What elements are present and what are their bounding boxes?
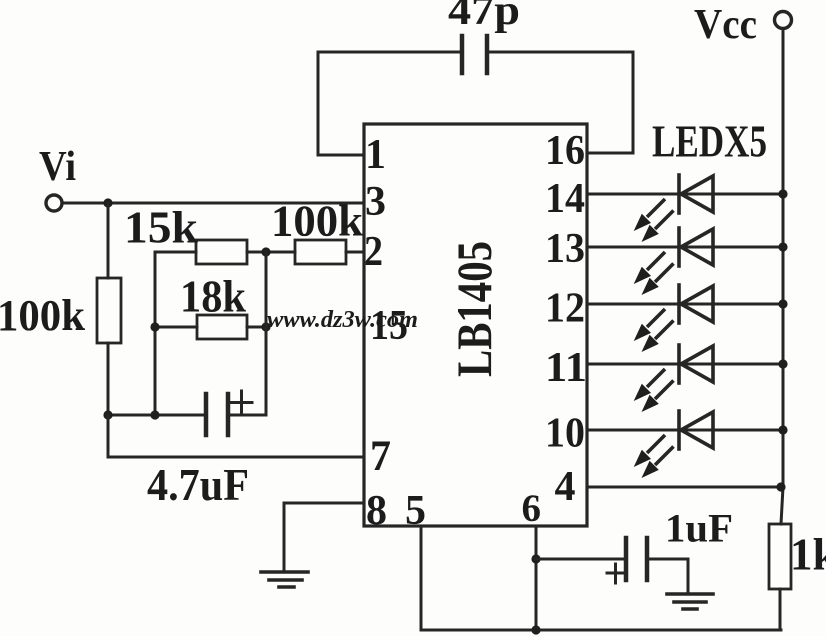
wire node down to pin7 — [108, 415, 364, 457]
svg-text:15: 15 — [370, 303, 408, 349]
svg-text:Vi: Vi — [39, 144, 76, 190]
LED D5 pin10 row — [587, 411, 788, 478]
terminal Vi — [46, 195, 62, 211]
svg-text:1k: 1k — [790, 530, 826, 580]
svg-text:47p: 47p — [448, 0, 520, 34]
wire Vi to pin3 — [63, 202, 364, 205]
watermark www.dz3w.com — [267, 307, 418, 333]
wire node row to cap left plate — [108, 414, 206, 417]
LED D1 symbol — [679, 175, 713, 213]
node rail pin11 — [778, 359, 787, 368]
wire 47p loop top right — [489, 51, 633, 54]
svg-text:13: 13 — [545, 226, 585, 272]
svg-text:12: 12 — [545, 286, 585, 332]
node pin6 rail junction — [531, 625, 540, 634]
label 4.7uF — [147, 460, 249, 510]
wire pin6 node to 1uF — [536, 558, 626, 561]
wire 1k bottom to rail — [779, 589, 782, 630]
svg-text:8: 8 — [366, 488, 387, 534]
label 18k — [180, 272, 246, 322]
svg-text:15k: 15k — [124, 203, 198, 253]
svg-text:6: 6 — [522, 487, 542, 530]
svg-text:LB1405: LB1405 — [446, 241, 502, 377]
resistor R3 100k horizontal — [295, 240, 346, 264]
label 100k horizontal — [271, 197, 364, 246]
node rail pin4 — [776, 482, 785, 491]
label Vcc — [694, 2, 757, 48]
wire 1uF to ground — [647, 559, 688, 594]
node R1 bottom — [103, 410, 112, 419]
wire 15k left leg — [155, 252, 196, 415]
label 100k vertical — [0, 291, 86, 340]
pin 11 — [545, 345, 587, 391]
svg-text:4.7uF: 4.7uF — [147, 460, 249, 510]
svg-text:14: 14 — [545, 176, 585, 222]
svg-text:3: 3 — [365, 179, 386, 225]
svg-text:100k: 100k — [0, 291, 86, 340]
svg-text:2: 2 — [364, 229, 383, 275]
node rail pin13 — [778, 242, 787, 251]
wire pin14 row — [587, 193, 783, 196]
svg-text:LEDX5: LEDX5 — [652, 116, 767, 167]
pin 8 — [366, 488, 387, 534]
svg-text:Vcc: Vcc — [694, 2, 757, 48]
wire 47p loop top left — [318, 51, 460, 54]
wire pin8 to ground — [284, 503, 364, 571]
capacitor C2 polarity plus — [231, 391, 252, 413]
label 1uF — [665, 506, 733, 551]
ground G1 — [261, 572, 308, 587]
capacitor C2 4.7uF plates — [206, 394, 228, 435]
svg-text:11: 11 — [545, 345, 587, 391]
pin 10 — [545, 411, 585, 457]
LED D3 arrows — [634, 309, 674, 352]
LED D1 pin14 row — [587, 175, 788, 242]
wire right leg vertical — [265, 252, 268, 415]
wire Vi node down to R 100k — [107, 203, 110, 278]
op-amp U1 LB1405 IC body — [364, 124, 587, 526]
LED D2 pin13 row — [587, 228, 788, 295]
wire pin16 stub — [587, 152, 633, 155]
node 15k/100k junction — [261, 247, 270, 256]
node 18k left junction — [150, 322, 159, 331]
wire 18k left stub — [155, 326, 197, 329]
pin 15 — [370, 303, 408, 349]
pin 1 — [365, 132, 386, 178]
wire pin1 stub — [318, 154, 364, 157]
LED D4 arrows — [634, 369, 674, 412]
wire pin12 row — [587, 303, 783, 306]
resistor R2 15k — [196, 240, 247, 264]
label Vi — [39, 144, 76, 190]
svg-text:10: 10 — [545, 411, 585, 457]
svg-text:4: 4 — [555, 464, 576, 510]
pin 16 — [545, 128, 585, 174]
capacitor C3 polarity plus — [607, 564, 624, 583]
svg-text:16: 16 — [545, 128, 585, 174]
resistor R5 1k — [769, 524, 791, 589]
LED D1 arrows — [634, 199, 674, 242]
wire pin4 row — [587, 486, 781, 489]
svg-text:7: 7 — [370, 433, 391, 480]
label 47p — [448, 0, 520, 34]
pin 7 — [370, 433, 391, 480]
wire 47p loop left vertical — [317, 52, 320, 155]
wire 15k right to 100k left — [247, 251, 295, 254]
pin 3 — [365, 179, 386, 225]
node pin6 cap junction — [531, 554, 540, 563]
node Vi junction — [103, 198, 112, 207]
wire 18k right stub — [247, 326, 266, 329]
ground G2 — [667, 594, 713, 609]
terminal Vcc — [775, 12, 792, 29]
svg-text:1uF: 1uF — [665, 506, 733, 551]
node rail pin10 — [778, 425, 787, 434]
label IC name LB1405 — [446, 241, 502, 377]
resistor R1 100k vertical — [97, 278, 121, 343]
wire cap right plate to right leg — [228, 414, 266, 417]
pin 4 — [555, 464, 576, 510]
svg-text:5: 5 — [405, 488, 426, 534]
pin 13 — [545, 226, 585, 272]
wire pin6 down — [535, 526, 538, 630]
label 1k — [790, 530, 826, 580]
capacitor C1 47p — [462, 36, 487, 73]
LED D5 symbol — [679, 411, 713, 449]
resistor R4 18k — [197, 315, 247, 339]
label 15k — [124, 203, 198, 253]
pin 2 — [364, 229, 383, 275]
svg-text:18k: 18k — [180, 272, 246, 322]
label LEDX5 — [652, 116, 767, 167]
LED D2 arrows — [634, 252, 674, 295]
pin 12 — [545, 286, 585, 332]
LED D4 symbol — [679, 345, 713, 383]
pin 6 — [522, 487, 542, 530]
LED D2 symbol — [679, 228, 713, 266]
node 18k right junction — [261, 322, 270, 331]
node left leg bottom — [150, 410, 159, 419]
pin 5 — [405, 488, 426, 534]
pin 14 — [545, 176, 585, 222]
wire R1 bottom to node — [107, 343, 110, 415]
node rail pin12 — [778, 299, 787, 308]
node rail pin14 — [778, 189, 787, 198]
LED D5 arrows — [634, 435, 674, 478]
capacitor C3 1uF plates — [626, 538, 647, 580]
wire pin11 row — [587, 363, 783, 366]
LED D4 pin11 row — [587, 345, 788, 412]
LED D3 pin12 row — [587, 285, 788, 352]
wire pin10 row — [587, 429, 783, 432]
svg-text:1: 1 — [365, 132, 386, 178]
wire 47p loop right vertical — [632, 52, 635, 153]
wire bottom rail — [421, 629, 781, 632]
wire pin13 row — [587, 246, 783, 249]
svg-text:100k: 100k — [271, 197, 364, 246]
wire pin5 down — [420, 526, 423, 630]
wire Vcc rail — [781, 29, 783, 524]
LED D3 symbol — [679, 285, 713, 323]
wire 100k to pin2 — [346, 251, 364, 254]
